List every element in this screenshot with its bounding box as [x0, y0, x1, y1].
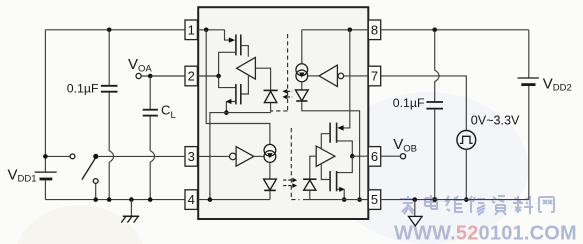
wire bottom rail pin5 to VDD2	[381, 199, 529, 201]
svg-text:4: 4	[188, 192, 195, 207]
pin 8 box	[368, 20, 380, 40]
wire pin8 VDD2 feed to Q3 source	[341, 30, 350, 128]
source G1 pulse generator 0V~3.3V	[457, 131, 476, 150]
junction VOA / load cap CL	[148, 74, 153, 79]
LED D3 (channel A transmit)	[295, 90, 308, 101]
wire D4 anode to pin5 rail	[309, 190, 311, 199]
transistor Q2 NMOS gate bar	[240, 84, 242, 104]
wire Q2 gate lead	[241, 76, 249, 94]
transistor Q3 PMOS channel bar	[336, 123, 338, 143]
transistor Q2 NMOS source arrow	[226, 99, 232, 104]
wire buffer A2 input from photodiode D4	[310, 156, 316, 178]
junction GND2 stub / bottom rail	[413, 197, 418, 202]
wire bottom rail GND1 to pin4	[45, 199, 185, 201]
transistor Q4 NMOS channel bar	[336, 171, 338, 191]
wire PMOS Q1 source lead	[225, 30, 230, 40]
junction pin8 rail node	[348, 28, 353, 33]
capacitor C2 0.1uF bypass (with hop over pin7 wire)	[426, 30, 443, 200]
wire pin7 to pulse generator	[381, 76, 467, 130]
wire buffer U2 output to current source	[254, 155, 264, 157]
svg-text:7: 7	[371, 69, 378, 84]
battery VDD2	[518, 78, 539, 85]
transistor Q1 PMOS source arrow	[229, 37, 235, 42]
wire Q4 drain to output node	[337, 156, 353, 172]
capacitor CL load	[143, 76, 158, 200]
ground GND1 (hatched)	[121, 200, 139, 223]
wire internal GND1 rail	[210, 113, 271, 200]
inverter U3 triangle (channel A input buffer)	[319, 65, 337, 87]
junction VOA output node	[216, 74, 221, 79]
wire pin8 internal VDD2 rail	[302, 29, 369, 31]
wire pin5 internal GND2 rail	[303, 199, 368, 201]
label VDD1	[8, 166, 37, 184]
svg-text:0V~3.3V: 0V~3.3V	[471, 113, 520, 127]
wire VDD2 right vertical upper	[528, 30, 530, 78]
wire VDD1 left vertical lower	[44, 180, 46, 199]
inverter U2 input bubble	[230, 153, 237, 160]
wire Q2 drain to output node	[219, 76, 236, 88]
svg-text:WWW.520101.COM: WWW.520101.COM	[394, 223, 577, 244]
transistor Q1 PMOS channel bar	[235, 35, 237, 56]
watermark chinese text 家电维修资料网 (drawn strokes)	[400, 195, 554, 215]
svg-text:V: V	[543, 75, 553, 92]
junction C1 / bottom rail	[107, 197, 112, 202]
svg-text:0.1µF: 0.1µF	[393, 96, 425, 110]
junction ground stub / bottom rail	[129, 197, 134, 202]
wire pulse generator to bottom rail	[465, 149, 467, 199]
wire pin3 internal input	[198, 155, 230, 157]
label CL	[161, 103, 176, 121]
wire Q4 gate lead	[321, 164, 330, 180]
wire VDD2 rail down to current source I1	[301, 30, 303, 64]
wire I1 to LED D3	[301, 82, 303, 90]
switch S1 throw contact B	[93, 179, 98, 184]
diode D4 photodiode (channel B receive)	[303, 179, 316, 190]
transistor Q4 NMOS source arrow	[339, 187, 345, 192]
wire D2 cathode to pin4 rail	[269, 190, 271, 199]
transistor Q3 PMOS gate bar	[329, 123, 331, 143]
switch S1 pole	[93, 154, 98, 159]
barrier dashed jog channel A bottom	[271, 110, 288, 112]
svg-text:6: 6	[371, 149, 378, 164]
capacitor C1 0.1uF bypass	[101, 30, 118, 200]
pin 7 box	[368, 66, 380, 86]
svg-text:DD1: DD1	[18, 174, 37, 185]
label VOB	[393, 136, 417, 154]
wire I2 to LED D2	[269, 162, 271, 179]
junction top rail / bypass cap C2	[432, 28, 437, 33]
light arrow channel B lower (points right)	[283, 183, 297, 188]
wire Q1 drain to output node	[219, 52, 236, 76]
light arrow channel A upper (points left)	[282, 89, 292, 94]
inverter U2 triangle (channel B input buffer)	[236, 147, 254, 167]
pin 6 box	[368, 147, 380, 167]
wire D3 cathode to GND2	[302, 101, 360, 200]
junction throw B / bottom rail	[93, 197, 98, 202]
wire pin1 internal VDD1 rail	[198, 29, 225, 31]
junction GND1 rail node	[224, 110, 229, 115]
svg-text:8: 8	[371, 22, 378, 37]
current source I2 LED driver circles	[264, 144, 276, 162]
diode D1 photodiode (channel A receive)	[264, 90, 278, 102]
wire Q2 source lead	[226, 102, 236, 113]
svg-text:3: 3	[188, 149, 195, 164]
label VOA	[128, 56, 152, 74]
wire internal VDD1 feed to channel B LED driver	[206, 30, 270, 145]
transistor Q3 PMOS source arrow	[337, 125, 343, 130]
inverter U3 bubble	[338, 73, 344, 79]
junction LED D3 return / pin5 rail	[357, 197, 362, 202]
svg-text:1: 1	[188, 22, 195, 37]
junction top rail / bypass cap C1	[107, 28, 112, 33]
watermark logo disc bottom-left	[14, 205, 146, 244]
junction CL / bottom rail	[148, 197, 153, 202]
junction VOB output node	[350, 154, 355, 159]
wire pin4 internal GND1 rail	[198, 199, 270, 201]
wire switch throw B to GND1 rail	[95, 183, 97, 199]
wire Q3 gate lead	[321, 134, 330, 149]
svg-text:OB: OB	[403, 143, 417, 154]
junction pin4 rail / driver ground	[208, 197, 213, 202]
wire Q3 drain to output node	[337, 141, 353, 156]
pin 5 box	[368, 190, 380, 210]
wire VDD2 right vertical lower	[528, 86, 530, 200]
junction G1 / bottom rail	[464, 197, 469, 202]
switch S1 throw contact A	[70, 154, 75, 159]
svg-text:DD2: DD2	[553, 83, 572, 94]
wire pin2 internal VOA	[198, 75, 219, 77]
wire pin7 internal input	[344, 75, 369, 77]
barrier dashed jog channel B bottom	[291, 199, 299, 201]
svg-text:0.1µF: 0.1µF	[67, 82, 99, 96]
svg-text:5: 5	[371, 192, 378, 207]
pin 2 box	[185, 66, 197, 86]
svg-text:V: V	[393, 136, 403, 153]
wire I1 to inverter U3	[308, 75, 319, 77]
node VOB terminal	[400, 154, 405, 159]
ground GND2 (open triangle)	[409, 200, 423, 226]
switch S1 lever	[82, 158, 95, 179]
barrier dashed line channel A	[287, 34, 289, 110]
svg-text:2: 2	[188, 69, 195, 84]
wire pin6 to VOB	[381, 155, 401, 157]
svg-text:V: V	[128, 56, 138, 73]
wire pin8 to VDD2 top rail	[381, 29, 529, 31]
wire VDD1 to switch throw A	[45, 155, 70, 157]
light arrow channel A lower (points left)	[282, 95, 292, 100]
junction Q4 source / pin5 rail	[342, 197, 347, 202]
wire VDD1 left vertical upper	[44, 30, 46, 172]
transistor Q2 NMOS channel bar	[235, 84, 237, 104]
op-amp A2 receiver buffer triangle	[316, 146, 335, 166]
junction pin1 internal node	[204, 28, 209, 33]
svg-text:C: C	[161, 103, 170, 118]
IC U1 package outline	[198, 7, 368, 219]
svg-text:V: V	[8, 166, 18, 183]
current source I1 LED driver circles	[296, 64, 308, 82]
svg-text:L: L	[171, 110, 176, 121]
wire VOA to pin2	[141, 75, 185, 77]
pin 4 box	[185, 190, 197, 210]
wire switch pole to pin3	[98, 155, 185, 157]
wire buffer A1 input from photodiode D1	[255, 68, 270, 90]
wire pin6 internal VOB	[352, 155, 368, 157]
op-amp A1 receiver buffer triangle	[237, 57, 256, 79]
svg-text:OA: OA	[138, 63, 152, 74]
LED D2 (channel B transmit)	[264, 179, 277, 190]
junction VDD1 vertical / switch feed	[43, 154, 48, 159]
barrier dashed line channel B	[290, 128, 292, 199]
pin 1 box	[185, 20, 197, 40]
light arrow channel B upper (points right)	[283, 178, 297, 183]
node VOA terminal	[136, 73, 141, 78]
wire D1 anode to GND1 rail	[270, 103, 272, 113]
wire top rail VDD1 to pin1	[45, 29, 185, 31]
battery VDD1	[35, 172, 57, 179]
pin 3 box	[185, 147, 197, 167]
transistor Q4 NMOS gate bar	[329, 171, 331, 191]
transistor Q1 PMOS gate bar	[240, 35, 242, 56]
watermark logo disc right	[328, 92, 528, 244]
label VDD2	[543, 75, 572, 93]
junction C2 / bottom rail	[432, 197, 437, 202]
wire Q1 gate lead	[241, 46, 249, 57]
wire Q4 source lead	[337, 189, 345, 199]
